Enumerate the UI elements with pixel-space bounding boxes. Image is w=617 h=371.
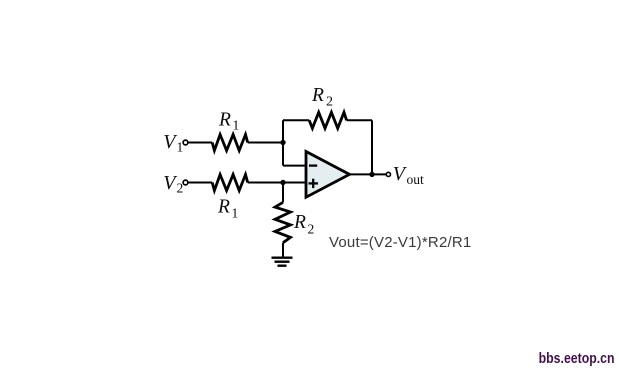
svg-text:V: V	[393, 163, 408, 185]
output node junction	[369, 172, 374, 177]
formula text Vout=(V2-V1)*R2/R1	[329, 234, 471, 251]
svg-text:2: 2	[177, 181, 184, 196]
resistor R2 (to ground)	[275, 202, 291, 242]
svg-text:R: R	[311, 85, 324, 106]
svg-text:2: 2	[308, 222, 315, 237]
wire	[350, 173, 387, 175]
wire	[282, 243, 284, 257]
wire	[283, 119, 309, 121]
op-amp inverting input (-)	[309, 164, 317, 166]
label R1 (bottom)	[217, 197, 238, 221]
wire	[248, 182, 306, 184]
wire	[347, 119, 372, 121]
wire	[189, 182, 213, 184]
label V2	[163, 172, 183, 196]
node B (junction at non-inverting side)	[280, 180, 285, 185]
label V1	[163, 131, 183, 155]
svg-text:R: R	[217, 197, 230, 218]
svg-text:1: 1	[233, 118, 240, 133]
wire	[282, 183, 284, 203]
op-amp non-inverting input (+)	[309, 179, 319, 188]
wire	[283, 165, 306, 167]
label R2 (feedback)	[311, 85, 333, 110]
resistor R2 (feedback)	[309, 112, 346, 128]
svg-text:out: out	[407, 172, 425, 187]
svg-text:1: 1	[232, 206, 239, 221]
resistor R1 (top)	[212, 135, 248, 151]
label R1 (top)	[218, 110, 239, 133]
resistor R1 (bottom)	[212, 175, 248, 191]
ground	[272, 258, 293, 266]
terminal V2	[183, 180, 188, 185]
label R2 (to ground)	[293, 212, 314, 236]
watermark bbs.eetop.cn	[539, 350, 615, 367]
node A (junction at inverting side)	[280, 140, 285, 145]
svg-text:R: R	[293, 212, 306, 233]
svg-text:R: R	[218, 110, 231, 131]
svg-text:2: 2	[326, 95, 333, 110]
wire	[282, 143, 284, 166]
wire	[189, 142, 213, 144]
svg-text:1: 1	[177, 140, 184, 155]
terminal Vout	[386, 172, 390, 176]
op-amp U1	[306, 152, 350, 198]
label Vout	[393, 163, 424, 187]
wire	[371, 120, 373, 174]
wire	[248, 142, 283, 144]
wire	[282, 120, 284, 142]
terminal V1	[183, 140, 188, 145]
